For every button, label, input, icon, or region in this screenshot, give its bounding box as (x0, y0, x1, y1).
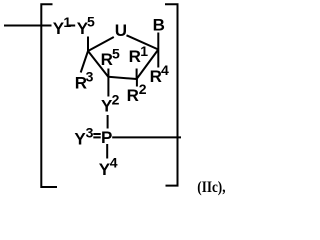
svg-text:R: R (129, 47, 141, 66)
svg-text:2: 2 (139, 81, 147, 97)
wire: left chain bond crossing left bracket to Y1 (4, 25, 52, 27)
wire: ring bond U to C1' (127, 35, 159, 49)
svg-text:(IIc),: (IIc), (197, 179, 225, 196)
left bracket (41, 4, 57, 187)
wire: bond Y2 to P (107, 115, 109, 129)
wire: ring bond C2' to C1' (137, 50, 159, 80)
wire: bond B to C1' (157, 33, 159, 50)
wire: bond C3' to Y2 (107, 77, 109, 97)
wire: bond C4' to R3 (81, 51, 88, 73)
svg-text:4: 4 (161, 62, 169, 78)
svg-text:R: R (127, 86, 139, 105)
wire: bond Y5 to C4' (87, 37, 89, 52)
svg-text:3: 3 (86, 69, 94, 85)
wire: bond C2' to R2 (136, 79, 138, 87)
svg-text:5: 5 (87, 14, 95, 30)
svg-text:2: 2 (112, 92, 120, 108)
wire: double bond Y3 to P lower bar (93, 136, 100, 138)
svg-text:1: 1 (63, 14, 71, 30)
svg-text:4: 4 (110, 155, 118, 171)
wire: bond C3' to R5 (107, 69, 109, 77)
svg-text:5: 5 (112, 46, 120, 62)
wire: ring bond C3' to C2' (108, 77, 136, 79)
right bracket (165, 4, 178, 185)
svg-text:P: P (101, 128, 112, 147)
wire: ring bond C4' to C3' (88, 51, 108, 77)
svg-text:B: B (153, 16, 165, 35)
svg-text:Y: Y (74, 129, 86, 148)
svg-text:U: U (115, 21, 127, 40)
wire: ring bond U to C4' (88, 37, 114, 51)
svg-text:3: 3 (86, 124, 94, 140)
wire: bond Y1 to Y5 (69, 25, 76, 27)
wire: bond C2' to R1 (136, 69, 138, 80)
wire: bond P to Y4 (106, 144, 108, 159)
svg-text:1: 1 (140, 43, 148, 59)
wire: right chain bond from P crossing right bracket (112, 136, 181, 138)
wire: bond C1' to R4 (157, 50, 159, 68)
wire: double bond Y3 to P upper bar (93, 133, 100, 135)
